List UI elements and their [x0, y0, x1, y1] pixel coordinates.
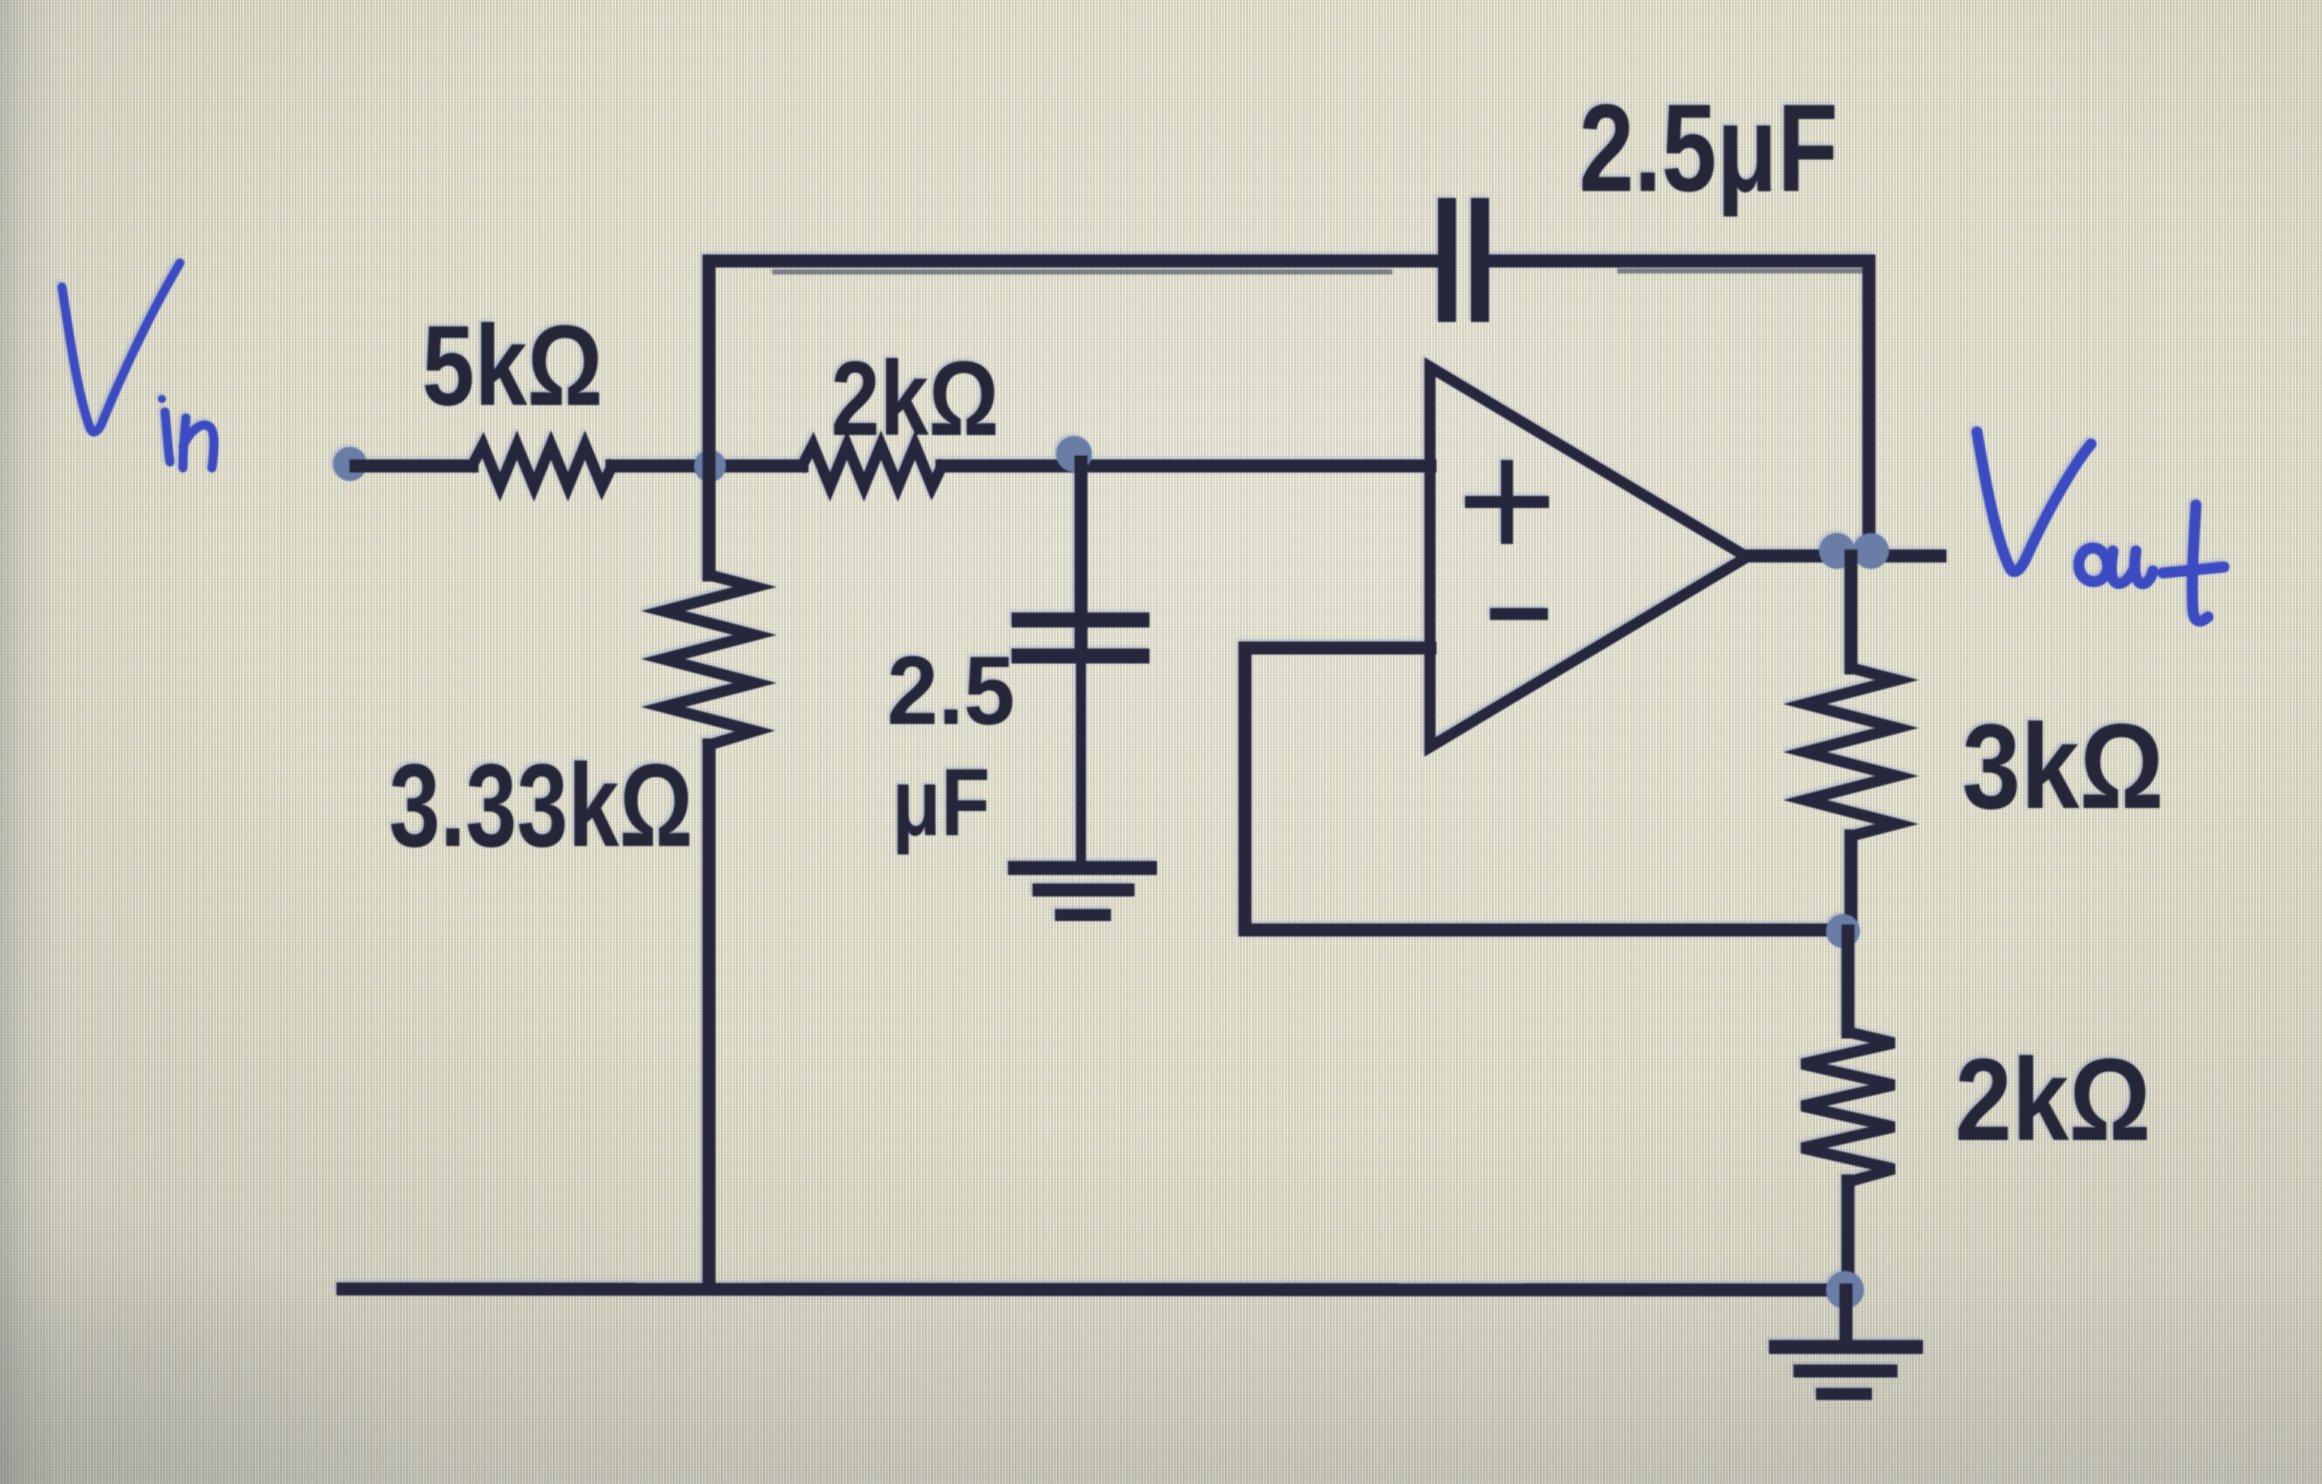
svg-text:5kΩ: 5kΩ	[422, 303, 603, 430]
node A junction dot	[694, 450, 726, 482]
divider node dot	[1826, 914, 1860, 948]
output node dots	[1819, 533, 1889, 569]
svg-text:μF: μF	[892, 749, 990, 856]
wire: 5k to node A	[612, 460, 802, 473]
resistor R2 2kOhm (series)	[802, 445, 942, 487]
wire: node B down to capacitor C2	[1075, 462, 1088, 864]
label Vin (handwritten)	[62, 263, 214, 468]
wire: feedback down to output node	[1863, 261, 1876, 552]
svg-text:2kΩ: 2kΩ	[831, 340, 999, 458]
input terminal dot (Vin)	[333, 447, 367, 481]
svg-text:3.33kΩ: 3.33kΩ	[389, 740, 693, 872]
label 3.33kOhm	[389, 740, 693, 872]
capacitor C1 2.5uF plates	[1447, 207, 1480, 313]
capacitor C2 plates	[1019, 620, 1142, 656]
wire: top feedback rail (right of C1)	[1489, 261, 1869, 271]
label 3kOhm	[1962, 698, 2164, 834]
label 2.5uF	[1579, 80, 1838, 218]
op-amp + symbol	[1471, 466, 1543, 538]
svg-text:2.5μF: 2.5μF	[1579, 80, 1838, 218]
label 2.5 (C2 value)	[887, 636, 1015, 745]
resistor R1 5kOhm (series input)	[472, 445, 612, 487]
label 2kOhm (divider)	[1955, 1034, 2151, 1165]
resistor R5 2kOhm (divider bottom)	[1802, 1032, 1894, 1182]
node B junction dot	[1056, 436, 1092, 472]
wire: op-amp output	[1747, 550, 1940, 563]
svg-text:2kΩ: 2kΩ	[1955, 1034, 2151, 1165]
resistor R4 3kOhm (divider top)	[1805, 668, 1897, 836]
wire: - input stub	[1245, 642, 1430, 655]
op-amp U1 triangle	[1430, 367, 1747, 747]
wire: feedback bottom to divider node	[1245, 924, 1840, 937]
wire: 2k to op-amp + input (through node B)	[942, 460, 1430, 473]
resistor R3 3.33kOhm (shunt)	[663, 575, 755, 745]
svg-text:3kΩ: 3kΩ	[1962, 698, 2164, 834]
svg-text:2.5: 2.5	[887, 636, 1015, 745]
label 2kOhm (series)	[831, 340, 999, 458]
wire: feedback left vertical	[1239, 648, 1252, 930]
ground rail wire	[343, 1289, 1847, 1290]
ground node dot	[1826, 1271, 1864, 1309]
wire: node A down through 3.33k to ground rail	[703, 466, 716, 1289]
ground symbol (under C2)	[1015, 868, 1150, 915]
wire: output down to 3k	[1845, 556, 1858, 668]
op-amp - symbol	[1496, 608, 1542, 620]
wire: input lead to 5k resistor	[356, 460, 472, 473]
label uF (C2 value)	[892, 749, 990, 856]
wire: top feedback rail (left of C1)	[709, 261, 1438, 272]
wire: node A up to feedback top rail	[703, 261, 716, 466]
wire: divider node to 2k	[1842, 931, 1855, 1032]
wire: 2k down to ground node	[1842, 1181, 1855, 1290]
label 5kOhm	[422, 303, 603, 430]
label Vout (handwritten)	[1977, 432, 2224, 621]
wire: 3k to divider node	[1845, 836, 1858, 930]
ground symbol (main, below node)	[1776, 1290, 1916, 1394]
